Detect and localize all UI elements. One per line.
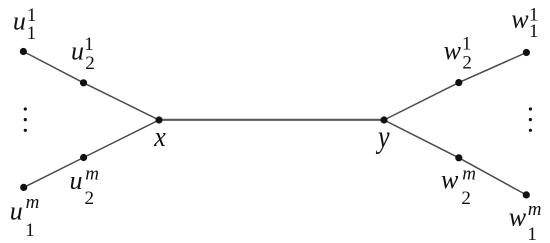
svg-text:2: 2	[461, 188, 471, 209]
label u1^1	[13, 5, 36, 44]
wire y to w2_m	[384, 120, 459, 158]
wire u2_m to u1_m	[24, 158, 84, 188]
svg-text:w: w	[511, 5, 529, 34]
wire u2_1 to x	[84, 83, 160, 120]
svg-text:u: u	[70, 166, 83, 195]
svg-text:w: w	[444, 36, 462, 65]
node w1_m	[523, 191, 530, 198]
svg-text:2: 2	[85, 188, 95, 209]
svg-text:u: u	[71, 37, 84, 66]
svg-text:1: 1	[462, 33, 472, 54]
svg-text:1: 1	[25, 220, 35, 241]
svg-text:m: m	[462, 164, 476, 185]
wire x to y	[159, 119, 384, 121]
label w1^1	[511, 4, 538, 42]
node x	[155, 116, 162, 123]
svg-text:1: 1	[84, 34, 94, 55]
node u1_m	[20, 184, 27, 191]
svg-text:x: x	[153, 121, 166, 152]
wire y to w2_1	[384, 83, 459, 120]
wire w2_m to w1_m	[459, 158, 527, 195]
label w2^1	[444, 33, 472, 73]
svg-text:1: 1	[27, 23, 37, 44]
svg-text:w: w	[509, 202, 527, 231]
svg-text:u: u	[10, 196, 23, 225]
wire x to u2_m	[84, 120, 159, 158]
node y	[380, 116, 387, 123]
svg-text:2: 2	[85, 53, 95, 74]
wire w2_1 to w1_1	[459, 53, 527, 83]
svg-text:u: u	[13, 6, 26, 35]
vertical ellipsis right	[529, 107, 532, 110]
node u2_1	[80, 79, 87, 86]
svg-text:y: y	[375, 119, 389, 154]
vertical ellipsis left	[24, 107, 27, 110]
node w2_m	[455, 154, 462, 161]
svg-text:2: 2	[462, 52, 472, 73]
svg-text:m: m	[528, 199, 542, 220]
label w1^m	[509, 199, 542, 243]
wire u1_1 to u2_1	[23, 52, 83, 83]
node u1_1	[20, 48, 27, 55]
svg-text:1: 1	[529, 21, 539, 42]
svg-text:w: w	[441, 165, 459, 194]
svg-text:1: 1	[527, 224, 537, 243]
label u2^1	[71, 34, 95, 74]
node w2_1	[455, 79, 462, 86]
svg-text:m: m	[26, 192, 40, 213]
label u1^m	[10, 192, 40, 241]
label w2^m	[441, 164, 476, 210]
svg-text:m: m	[85, 163, 99, 184]
node u2_m	[80, 154, 87, 161]
label u2^m	[70, 163, 99, 209]
node w1_1	[523, 49, 530, 56]
